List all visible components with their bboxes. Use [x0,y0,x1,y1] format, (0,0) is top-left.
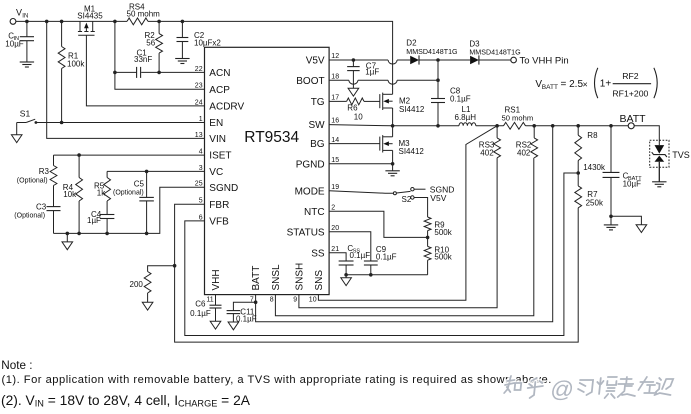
resistor R1 100k [61,21,63,46]
capacitor CSS 0.1uF [339,260,354,262]
svg-text:VHH: VHH [211,269,222,290]
svg-text:1k: 1k [97,188,106,197]
wire CBATT bottom to grounds [610,216,612,225]
resistor RS3 402 [496,126,498,138]
svg-text:13: 13 [195,132,203,139]
svg-text:V5V: V5V [306,56,325,67]
svg-text:100k: 100k [67,60,85,69]
svg-text:200: 200 [130,280,144,289]
svg-text:50 mohm: 50 mohm [502,113,534,122]
svg-text:402: 402 [480,149,494,158]
wire SS pin 21 to CSS [329,253,346,261]
ground below C7 [348,88,359,96]
wire V5V pin 12 line [329,59,388,61]
svg-text:16: 16 [331,117,339,124]
svg-text:SI4435: SI4435 [77,11,103,20]
op-amp U1 RT9534 controller IC body [205,47,330,294]
TVS diode with dashed box [650,140,669,167]
ground below 200 resistor [142,302,153,310]
ground below M3 [385,170,399,172]
svg-text:BG: BG [310,139,325,150]
svg-text:R8: R8 [587,131,598,140]
svg-text:MODE: MODE [295,186,325,197]
svg-text:@: @ [549,376,575,402]
wire ISET pin 4 [54,154,205,156]
svg-text:STATUS: STATUS [287,227,325,238]
svg-text:VIN: VIN [209,134,226,145]
wire EN pin 1 [36,122,205,124]
svg-text:SGND: SGND [209,183,238,194]
svg-text:0.1µF: 0.1µF [350,251,371,260]
capacitor C11 0.1uF [233,302,255,310]
wire BOOT pin 18 line [329,79,349,81]
diode D3 MMSD4148T1G [470,56,479,65]
wire PGND pin 15 [329,163,393,165]
svg-text:NTC: NTC [304,207,325,218]
wire SNSL pin 8 to RS2 bottom [275,158,533,316]
svg-text:V5V: V5V [430,193,446,203]
svg-text:1+: 1+ [600,79,612,90]
capacitor CIN 10uF [26,21,28,36]
wire top rail after RS4 to M2 drain [148,21,393,94]
svg-text:1µF: 1µF [365,68,379,77]
svg-text:12: 12 [331,53,339,60]
capacitor C2 10uFx2 [181,21,183,37]
wire M3 drain to SW rail [392,126,394,137]
resistor RS1 50mohm [504,122,526,129]
svg-text:23: 23 [195,83,203,90]
svg-text:56: 56 [146,38,155,47]
svg-text:C6: C6 [195,299,206,308]
svg-text:ACN: ACN [209,68,230,79]
capacitor C7 1uF [352,60,354,67]
svg-text:V: V [16,8,22,18]
svg-text:10k: 10k [63,190,77,199]
svg-text:(Optional): (Optional) [14,213,45,220]
transistor M1 SI4435 PMOS [79,21,81,31]
wire boot node vertical [437,60,439,99]
wire FBR pin 5 loop to R7 bottom [175,204,579,342]
svg-text:ACP: ACP [209,85,230,96]
wire M2 source to SW rail [392,108,394,126]
transistor M2 SI4412 [379,94,381,108]
svg-text:402: 402 [517,149,531,158]
svg-text:FBR: FBR [209,200,229,211]
wire VC pin 3 [107,170,204,172]
node VBATT formula [535,68,657,99]
ground below CIN [20,61,34,63]
capacitor C4 1uF [100,214,115,216]
wire NTC pin 2 to divider [329,211,428,237]
svg-text:C5: C5 [134,179,145,188]
svg-text:10: 10 [354,113,363,122]
svg-text:1: 1 [199,116,203,123]
resistor R7 250k [577,173,579,186]
svg-text:50 mohm: 50 mohm [127,10,161,19]
svg-text:9: 9 [293,296,297,303]
wire M1 gate to ACDRV pin 24 [86,35,204,106]
svg-text:3: 3 [199,165,203,172]
svg-text:SNSH: SNSH [295,263,306,291]
wire D2 cathode to D3 anode [419,59,470,61]
svg-text:10µF: 10µF [5,40,24,49]
svg-text:Note :: Note : [1,359,32,372]
svg-text:SI4412: SI4412 [399,147,425,156]
svg-text:MMSD4148T1G: MMSD4148T1G [406,48,457,56]
wire SNS pin 10 to RS1 left sense [318,126,497,300]
ground triangle right of CBATT [636,225,647,233]
svg-text:D3: D3 [469,40,480,49]
svg-text:RF2: RF2 [622,71,639,81]
svg-text:0.1µF: 0.1µF [190,309,211,318]
svg-text:10: 10 [309,296,317,303]
svg-text:RT9534: RT9534 [244,129,299,146]
node BATT terminal [628,123,634,129]
resistor R10 500k [427,237,429,246]
svg-text:D2: D2 [406,39,417,48]
svg-text:(Optional): (Optional) [17,178,48,185]
svg-text:R6: R6 [347,104,358,113]
capacitor C6 0.1uF [210,304,222,306]
svg-text:500k: 500k [434,228,452,237]
capacitor C8 0.1uF [431,98,445,100]
svg-text:10µF: 10µF [623,179,642,188]
svg-text:MMSD4148T1G: MMSD4148T1G [469,49,520,57]
wire analog ground rail to SGND pin 25 [54,187,205,233]
wire R10 bottom ground rail [346,274,428,276]
node To VHH Pin terminal [479,59,511,61]
resistor R3 optional [53,155,55,165]
svg-text:ISET: ISET [209,151,231,162]
ground below S1 [16,123,18,135]
svg-text:PGND: PGND [296,159,325,170]
transistor M3 SI4412 [379,137,381,151]
resistor R6 10 [347,98,364,105]
resistor RS2 402 [533,126,535,138]
svg-text:5: 5 [199,198,203,205]
svg-text:6: 6 [199,214,203,221]
svg-text:IN: IN [22,14,28,20]
wire VIN vertical to VIN pin 13 [47,21,205,138]
wire BATT pin 7 to battery rail [256,126,553,322]
svg-text:20: 20 [331,225,339,232]
capacitor CBATT 10uF [610,126,612,173]
svg-text:R3: R3 [39,167,50,176]
resistor R2 56 [158,21,160,33]
resistor R5 1k [106,171,108,177]
wire STATUS pin 20 to C9 [329,232,371,261]
inductor L1 6.8uH [459,123,476,126]
ground below C6 [210,321,221,329]
svg-text:19: 19 [331,184,339,191]
svg-text:0.1µF: 0.1µF [376,252,397,261]
svg-text:BATT: BATT [542,84,558,91]
wire top input rail VIN [16,20,127,22]
resistor R4 10k [78,155,80,177]
svg-text:SS: SS [311,248,325,259]
svg-text:SW: SW [308,120,325,131]
svg-text:BATT: BATT [620,113,647,125]
resistor 200 on FBR [148,266,175,272]
svg-text:SI4412: SI4412 [399,105,425,114]
svg-text:8: 8 [270,296,274,303]
svg-text:250k: 250k [586,199,604,208]
svg-text:(Optional): (Optional) [113,190,144,197]
svg-text:EN: EN [209,118,223,129]
svg-text:1µF: 1µF [87,216,101,225]
wire SNSH pin 9 to RS3 bottom [299,158,497,308]
svg-text:(1). For application with remo: (1). For application with removable batt… [2,374,552,386]
svg-text:VFB: VFB [209,217,229,228]
capacitor C9 0.1uF [364,260,378,262]
ground below C2 [175,58,189,60]
svg-text:TG: TG [311,97,325,108]
svg-text:33nF: 33nF [134,55,152,64]
svg-text:17: 17 [331,95,339,102]
svg-text:SNSL: SNSL [271,264,282,291]
watermark zhihu pseudo glyphs [503,376,673,402]
svg-text:18: 18 [331,73,339,80]
wire SW pin 16 rail to L1 [329,125,459,126]
svg-text:×: × [583,80,588,90]
svg-text:24: 24 [195,99,203,106]
ground below TVS [652,181,666,183]
wire VFB pin 6 loop to divider tap [185,173,578,336]
svg-text:R7: R7 [587,190,598,199]
svg-text:4: 4 [199,149,203,156]
svg-text:TVS: TVS [672,150,690,160]
wire battery rail RS1 to TVS [526,126,660,145]
svg-text:6.8µH: 6.8µH [455,113,477,122]
ground below rail [66,233,68,242]
svg-text:C3: C3 [36,203,47,212]
svg-text:ACDRV: ACDRV [209,102,244,113]
capacitor C1 33nF [115,71,137,73]
resistor RS4 50mohm [127,18,148,25]
wire M3 source to PGND [392,150,394,170]
switch S2 on MODE pin 19 [329,191,393,193]
resistor R8 1430k [577,126,579,135]
svg-text:BOOT: BOOT [296,76,324,87]
wire L1 to RS1 [476,125,504,127]
svg-text:22: 22 [195,66,203,73]
svg-text:25: 25 [195,181,203,188]
wire BG pin 14 to M3 gate [329,143,380,145]
wire ACN pin 22 [159,71,204,73]
wire TG pin 17 line [329,100,347,102]
node V5V net at S2 [414,198,428,218]
diode D2 MMSD4148T1G [410,56,419,65]
ground below CSS [345,275,347,278]
svg-text:21: 21 [331,246,339,253]
svg-text:S1: S1 [20,109,31,119]
node VIN input terminal [10,19,16,25]
svg-text:To VHH Pin: To VHH Pin [520,55,569,66]
resistor R9 500k [424,217,431,231]
wire VHH pin 11 to C6 [215,295,217,306]
svg-text:10µFx2: 10µFx2 [194,39,221,48]
svg-text:SNS: SNS [314,270,325,291]
svg-text:S2: S2 [402,195,412,204]
svg-text:VC: VC [209,167,223,178]
svg-text:BATT: BATT [251,266,262,291]
ground bar below CBATT [604,224,618,226]
wire S2 SGND throw [414,188,425,190]
wire ACP branch from rail [115,21,205,89]
svg-text:RF1+200: RF1+200 [612,88,648,98]
capacitor C5 optional [146,171,148,197]
svg-text:2: 2 [331,205,335,212]
svg-text:14: 14 [331,137,339,144]
svg-text:500k: 500k [434,253,452,262]
capacitor C3 optional [47,206,61,208]
svg-text:11: 11 [206,296,213,303]
ground below C11 [228,322,239,330]
svg-text:0.1µF: 0.1µF [450,95,471,104]
svg-text:1430k: 1430k [583,163,606,172]
svg-text:= 2.5: = 2.5 [561,79,584,90]
svg-text:15: 15 [331,157,339,164]
